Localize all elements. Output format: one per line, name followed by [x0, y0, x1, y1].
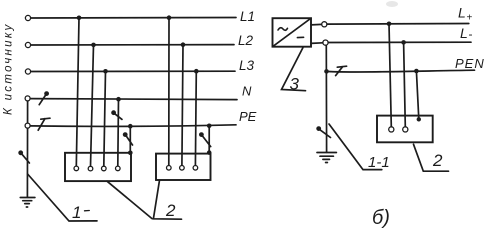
wire PE [30, 125, 236, 127]
junction L1 to box2 drop [167, 15, 172, 20]
leader line for label 1 [28, 174, 97, 221]
scan artifact: faint smudge top [386, 1, 398, 7]
junction L2 to box2 drop [181, 42, 186, 47]
converter output stub L+ [311, 23, 322, 26]
equipment box 2 [156, 154, 211, 180]
junction L3 to box2 drop [194, 69, 199, 74]
socket 3 of box2 [193, 166, 198, 171]
wire drop L- to box [404, 42, 406, 126]
wire drop L3 to box2 [194, 71, 197, 165]
junction PE drop at box2 corner [207, 150, 212, 155]
disconnect arrow on PE drop box1 [123, 132, 133, 145]
wire L1 [31, 17, 236, 20]
wire N [31, 99, 238, 100]
disconnect arrow on PE drop box2 [199, 132, 211, 146]
terminal L1 [25, 15, 30, 20]
terminal N [25, 96, 30, 101]
svg-text:1-1: 1-1 [368, 154, 390, 171]
socket 2 of box2 [180, 166, 185, 171]
wire drop L2 to box1 [91, 45, 94, 166]
junction L- to box drop [401, 40, 406, 45]
wire L2 [31, 44, 234, 46]
svg-text:L3: L3 [239, 58, 255, 73]
junction L3 to box1 drop [103, 69, 108, 74]
junction L1 to box1 drop [77, 15, 82, 20]
disconnect arrow on N drop [111, 110, 122, 119]
jumper wire N-PE terminals and grounding conductor (left) [26, 99, 28, 198]
equipment box (right diagram) [377, 116, 433, 143]
socket 4 of box1 [116, 166, 121, 171]
leader line for label 1-1 [329, 124, 382, 170]
wire drop N to box1 [117, 99, 120, 166]
wire drop PEN to box [416, 71, 418, 119]
disconnect arrow on grounding conductor [18, 150, 29, 163]
converter DC dash [297, 36, 303, 38]
wire L- [328, 41, 471, 43]
wire drop PE to box1 [129, 126, 131, 153]
svg-text:PEN: PEN [455, 56, 485, 71]
bond point of PEN drop inside box [417, 117, 421, 121]
leader line for label 3 [282, 48, 306, 91]
svg-text:+: + [467, 13, 473, 24]
wire drop L2 to box2 [182, 45, 183, 166]
ground electrode symbol (left) [20, 198, 35, 208]
svg-text:2: 2 [165, 201, 176, 220]
svg-text:L: L [460, 25, 468, 41]
junction N to box1 drop [116, 97, 121, 102]
junction L+ to box drop [387, 22, 392, 27]
terminal L2 [25, 42, 30, 47]
terminal L3 [25, 69, 30, 74]
junction PE drop at box1 corner [128, 151, 133, 156]
svg-text:3: 3 [290, 75, 300, 94]
svg-text:1: 1 [72, 203, 81, 222]
svg-text:L2: L2 [238, 33, 254, 48]
output terminal L+ [322, 22, 327, 27]
converter diagonal [273, 18, 312, 47]
svg-text:К источнику: К источнику [3, 22, 15, 115]
wire PEN [327, 70, 475, 72]
socket 1 of box2 [167, 166, 172, 171]
equipment box 1 [65, 153, 131, 181]
grounding conductor (right, from L- terminal) [325, 45, 327, 152]
wire drop L+ to box [389, 24, 391, 127]
svg-text:PE: PE [239, 109, 257, 124]
leader line for label 2 (from box2) [153, 180, 181, 219]
wire L3 [31, 70, 235, 72]
svg-text:N: N [242, 84, 252, 99]
junction PEN to box drop [414, 69, 419, 74]
svg-text:2: 2 [432, 151, 443, 170]
junction PE to box1 drop [128, 124, 133, 129]
leader line for label 2 (from box1) [107, 181, 152, 218]
junction PEN start [324, 69, 329, 74]
junction PE to box2 drop [207, 124, 212, 129]
bolted-joint symbol T on wire PE [38, 118, 50, 130]
disconnect arrow on grounding conductor (right) [316, 126, 330, 137]
leader line for label 2 (right diagram) [414, 144, 449, 171]
svg-text:L: L [458, 5, 466, 21]
converter output stub L- [311, 42, 323, 45]
terminal PE [25, 123, 30, 128]
socket 1 of right box [389, 127, 394, 132]
output terminal L- [323, 40, 328, 45]
converter AC tilde [278, 28, 288, 31]
socket 3 of box1 [102, 166, 107, 171]
disconnect arrow on wire N [39, 91, 49, 105]
wire drop L1 to box1 [76, 18, 79, 166]
dash after label 1 [85, 210, 90, 212]
svg-text:б): б) [372, 207, 390, 229]
bolted-joint symbol T on wire PEN [336, 66, 347, 75]
ground electrode symbol (right) [317, 153, 336, 163]
junction L2 to box1 drop [91, 43, 96, 48]
wire drop PE to box2 [208, 126, 210, 153]
socket 2 of right box [403, 127, 408, 132]
wire drop L3 to box1 [104, 71, 106, 166]
socket 1 of box1 [74, 166, 79, 171]
converter U1 box [273, 18, 312, 47]
svg-text:-: - [469, 27, 473, 41]
socket 2 of box1 [88, 166, 93, 171]
wire drop L1 to box2 [168, 18, 170, 166]
wire L+ [327, 23, 469, 26]
svg-text:L1: L1 [240, 9, 255, 24]
